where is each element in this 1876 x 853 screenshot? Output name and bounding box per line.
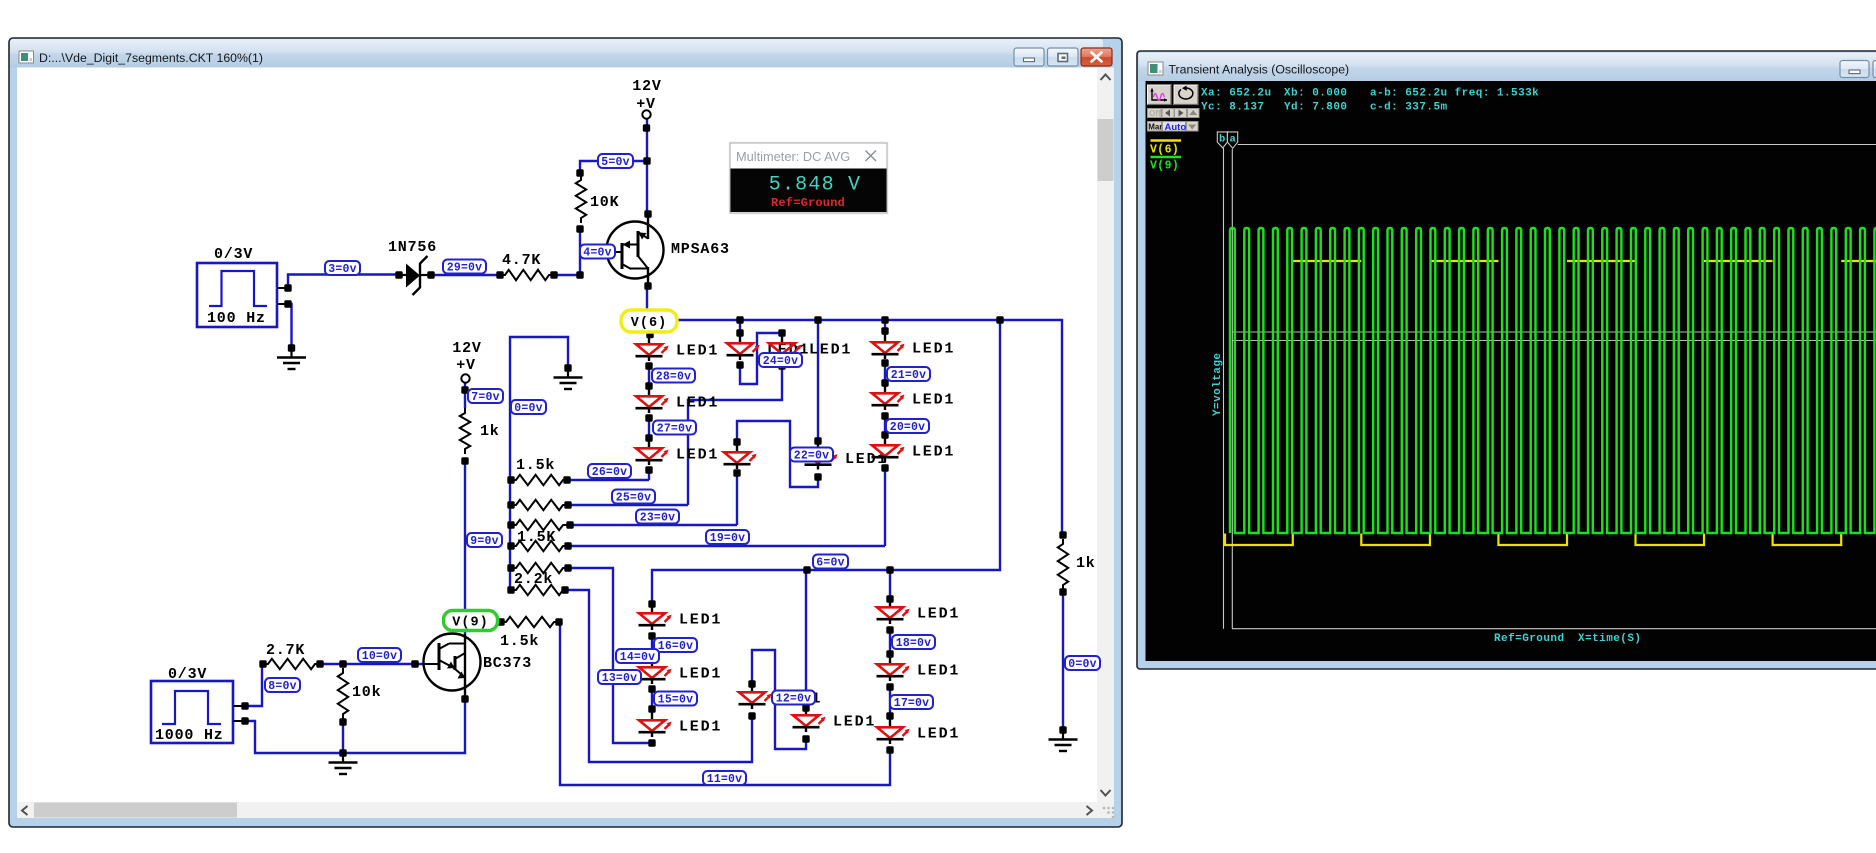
svg-text:LED1: LED1 (679, 719, 722, 736)
V(9) green trace 1kHz (1230, 228, 1876, 533)
node label 24=0v (759, 353, 802, 367)
legend V(9) green (1151, 156, 1182, 159)
plot frame bottom axis (1232, 628, 1876, 630)
restore button (1048, 48, 1079, 66)
wire pulse source 1000Hz top output to 2.7K (245, 664, 262, 706)
node label 12=0v (772, 691, 815, 705)
svg-text:LED1: LED1 (917, 726, 960, 743)
LED I (node12 pair right) (805, 705, 807, 714)
wire LED D bottom loop to LED C top (737, 421, 818, 487)
node label 3=0v (325, 261, 360, 275)
svg-text:22=0v: 22=0v (794, 450, 830, 463)
svg-text:13=0v: 13=0v (602, 672, 638, 685)
svg-text:29=0v: 29=0v (447, 262, 483, 275)
V(6) yellow trace 100Hz low brackets (1225, 534, 1293, 546)
scope left arrow button (1162, 109, 1174, 118)
svg-text:11=0v: 11=0v (707, 773, 743, 786)
svg-text:LED1: LED1 (809, 342, 852, 359)
svg-text:21=0v: 21=0v (891, 369, 927, 382)
node 4 junction (576, 271, 583, 278)
svg-text:Xa: 652.2u: Xa: 652.2u (1201, 88, 1272, 100)
LED A2 (648, 386, 650, 395)
node label 26=0v (588, 464, 631, 478)
wire node 6 bus loop (652, 320, 1000, 604)
wire base stub into MPSA63 (580, 251, 612, 253)
resize grip (1103, 807, 1105, 809)
LED A1 (node V6 chain) (648, 334, 650, 343)
oscilloscope title bar (1139, 53, 1876, 82)
resistor bank row3 node23 (511, 520, 568, 530)
svg-text:0/3V: 0/3V (214, 246, 253, 263)
vertical scrollbar down arrow (1101, 790, 1111, 796)
vertical scrollbar track (1097, 68, 1114, 819)
node label 23=0v (636, 510, 679, 524)
node V(9) highlighted probe label (444, 611, 498, 631)
resistor bank row6 node13 (511, 585, 568, 595)
svg-text:18=0v: 18=0v (896, 637, 932, 650)
svg-text:16=0v: 16=0v (658, 640, 694, 653)
horizontal scrollbar track (17, 802, 1097, 818)
scope down arrow button (1187, 122, 1199, 132)
svg-text:0=0v: 0=0v (514, 402, 542, 415)
horizontal scrollbar thumb (34, 803, 237, 818)
LED G2 (651, 657, 653, 666)
node 5 junction on 12V rail (643, 157, 650, 164)
svg-text:Yd: 7.800: Yd: 7.800 (1284, 102, 1347, 114)
svg-text:23=0v: 23=0v (640, 512, 676, 525)
svg-text:10=0v: 10=0v (362, 650, 398, 663)
node label 9=0v (467, 533, 502, 547)
scope Off button (1148, 109, 1162, 118)
svg-text:1.5k: 1.5k (500, 633, 539, 650)
node label 22=0v (790, 448, 833, 462)
LED D (node22) (814, 316, 821, 323)
svg-text:LED1: LED1 (676, 395, 719, 412)
svg-text:28=0v: 28=0v (656, 371, 692, 384)
svg-text:0=0v: 0=0v (1068, 658, 1096, 671)
schematic editor window frame (9, 38, 1122, 827)
svg-text:9=0v: 9=0v (470, 535, 498, 548)
schematic window title bar (10, 39, 1103, 68)
wire pulse source 100Hz top output to zener (288, 275, 399, 289)
svg-text:Transient Analysis (Oscillosco: Transient Analysis (Oscilloscope) (1169, 63, 1350, 77)
svg-text:LED1: LED1 (912, 341, 955, 358)
cursor c horizontal line (1232, 331, 1876, 333)
svg-text:BC373: BC373 (483, 655, 532, 672)
wire zener to resistor R 4.7K (431, 274, 500, 276)
LED B2 (781, 333, 783, 342)
svg-text:20=0v: 20=0v (890, 421, 926, 434)
scope up arrow button (1188, 109, 1200, 118)
wire pulse source 100Hz bottom output to ground (288, 304, 292, 348)
svg-text:Man: Man (1148, 122, 1164, 131)
node label 28=0v (652, 369, 695, 383)
ground rail junction (339, 749, 346, 756)
wire LED E2 to E3 segment node 20 (884, 416, 886, 435)
cursor a vertical line / left axis (1231, 149, 1233, 629)
schematic client area (17, 68, 1097, 803)
cursor b vertical line (1223, 148, 1225, 629)
wire right 1k resistor to ground (1062, 592, 1064, 730)
horizontal scrollbar left arrow (22, 806, 28, 815)
wire LED G2-G3 segment node 15 (651, 689, 653, 709)
close button (1081, 48, 1112, 66)
wire node 26 horizontal (567, 479, 649, 481)
svg-text:12V: 12V (632, 78, 661, 95)
svg-text:LED1: LED1 (833, 714, 876, 731)
wire LED column A drop from V6 bus (739, 320, 741, 333)
node label 13=0v (598, 670, 641, 684)
svg-text:LED1: LED1 (912, 392, 955, 409)
wire V(9) to 1.5k resistor (465, 621, 501, 623)
node label 21=0v (887, 367, 930, 381)
node label 18=0v (892, 635, 935, 649)
svg-text:Yc: 8.137: Yc: 8.137 (1201, 102, 1264, 114)
node label 7=0v (468, 389, 503, 403)
wire 2.2k first to LED G3 bottom node 14 (568, 568, 652, 743)
svg-text:19=0v: 19=0v (710, 532, 746, 545)
svg-text:6=0v: 6=0v (816, 557, 844, 570)
wire +V 12V supply down to MPSA63 emitter (646, 119, 648, 214)
LED G3 (651, 710, 653, 719)
svg-text:4=0v: 4=0v (583, 247, 611, 260)
transistor Q1 MPSA63 PNP darlington (607, 222, 664, 279)
svg-text:a: a (1230, 134, 1237, 146)
oscilloscope partial second button (1873, 61, 1876, 78)
wire MPSA63 collector down to node V(6) (646, 286, 648, 309)
multimeter display (731, 169, 887, 213)
node label 8=0v (265, 678, 300, 692)
svg-text:a-b: 652.2u freq: 1.533k: a-b: 652.2u freq: 1.533k (1370, 88, 1539, 100)
node label 27=0v (653, 421, 696, 435)
wire V(6) bus horizontal (678, 320, 1062, 535)
ground right column (1059, 726, 1066, 733)
svg-text:MPSA63: MPSA63 (671, 241, 730, 258)
svg-text:27=0v: 27=0v (657, 423, 693, 436)
scope toolbar waveform button (1148, 85, 1172, 105)
schematic window document icon (19, 51, 34, 63)
wire LED column D drop from V6 bus (817, 320, 819, 441)
wire LED G1-G2 segment node 16 (651, 636, 653, 655)
wire LED B2 bottom to node 25 riser (688, 366, 782, 505)
svg-text:LED1: LED1 (912, 444, 955, 461)
svg-text:2.7K: 2.7K (266, 642, 305, 659)
wire 1.5k V9 right end to node 11 rail (559, 622, 890, 785)
svg-text:Ref=Ground: Ref=Ground (1494, 633, 1565, 645)
svg-text:10k: 10k (352, 684, 381, 701)
LED H (node12 pair left) (751, 682, 753, 691)
svg-text:12=0v: 12=0v (776, 693, 812, 706)
LED E2 (884, 383, 886, 392)
svg-text:LED1: LED1 (679, 666, 722, 683)
svg-text:V(6): V(6) (631, 316, 667, 331)
svg-text:D:...\Vde_Digit_7segments.CKT: D:...\Vde_Digit_7segments.CKT 160%(1) (39, 51, 263, 65)
node label 16=0v (654, 638, 697, 652)
LED C (736, 442, 738, 451)
wire 12V left supply down through 1k to V(9) (464, 383, 466, 408)
node label 0=0v right (1065, 656, 1100, 670)
vertical scrollbar up arrow (1101, 75, 1111, 81)
svg-text:3=0v: 3=0v (328, 263, 356, 276)
svg-text:1k: 1k (480, 423, 500, 440)
wire LED H top to LED I bottom loop (752, 650, 806, 749)
svg-text:17=0v: 17=0v (894, 697, 930, 710)
LED G1 (651, 603, 653, 612)
oscilloscope window frame (1137, 51, 1876, 669)
node label 17=0v (890, 695, 933, 709)
svg-text:0/3V: 0/3V (168, 666, 207, 683)
svg-text:5.848 V: 5.848 V (769, 174, 861, 197)
V(6) yellow trace 100Hz high segments (1293, 260, 1362, 262)
LED J1 (886, 566, 893, 573)
oscilloscope minimize button (1840, 61, 1869, 78)
node label 5=0v (598, 154, 633, 168)
svg-text:7=0v: 7=0v (471, 391, 499, 404)
svg-text:5=0v: 5=0v (601, 156, 629, 169)
svg-text:Xb: 0.000: Xb: 0.000 (1284, 88, 1347, 100)
wire LED E1 to E2 segment node 21 (884, 363, 886, 383)
wire node 23 horizontal (570, 524, 737, 526)
wire BC373 base (320, 663, 424, 665)
LED A3 (648, 438, 650, 447)
LED E1 (881, 316, 888, 323)
node label 20=0v (886, 419, 929, 433)
node label 19=0v (706, 530, 749, 544)
wire LED A1 bottom to LED B2 top (740, 333, 782, 384)
wire 2.2k second to LED H bottom node 13 (565, 590, 752, 762)
svg-text:LED1: LED1 (917, 606, 960, 623)
svg-text:LED1: LED1 (676, 343, 719, 360)
oscilloscope client area (1146, 81, 1876, 661)
svg-text:LED1: LED1 (917, 663, 960, 680)
minimize button (1014, 48, 1044, 66)
wire LED I top to node 6 bus (805, 570, 807, 708)
svg-text:b: b (1219, 134, 1226, 146)
scope right arrow button (1175, 109, 1187, 118)
svg-text:1k: 1k (1076, 555, 1096, 572)
svg-text:V(9): V(9) (1150, 160, 1179, 173)
node 6 bus junctions (803, 566, 810, 573)
node V(6) highlighted probe label (621, 310, 677, 332)
svg-text:Auto: Auto (1165, 122, 1187, 133)
svg-text:Ref=Ground: Ref=Ground (771, 196, 845, 210)
wire node6 bus to LED J column top (889, 570, 891, 599)
scope Man button (1148, 122, 1162, 132)
pulse source V1 0/3V 100 Hz (197, 263, 277, 327)
scope toolbar replay button (1174, 85, 1198, 105)
node label 25=0v (612, 490, 655, 504)
legend V(6) yellow (1151, 139, 1182, 142)
svg-text:15=0v: 15=0v (658, 694, 694, 707)
wire LED J2-J3 segment node 17 (889, 687, 891, 716)
wire LED A2-A3 segment node 27 (648, 418, 650, 438)
node label 0=0v (511, 400, 546, 414)
svg-text:24=0v: 24=0v (763, 355, 799, 368)
transistor Q2 BC373 NPN darlington (424, 634, 481, 691)
wire node 19 horizontal (568, 545, 885, 547)
svg-text:Off: Off (1149, 109, 1161, 118)
svg-text:LED1: LED1 (676, 447, 719, 464)
svg-text:26=0v: 26=0v (592, 466, 628, 479)
wire LED column E drop from V6 bus (884, 320, 886, 331)
LED B1 (736, 316, 743, 323)
wire BC373 emitter to ground rail (245, 699, 465, 753)
ground top middle node 0 (564, 364, 571, 371)
svg-text:8=0v: 8=0v (268, 680, 296, 693)
svg-text:c-d: 337.5m: c-d: 337.5m (1370, 102, 1448, 114)
wire LED A1-A2 segment node 28 (648, 366, 650, 386)
wire node4 vertical to 10K bottom (579, 229, 581, 275)
wire LED C bottom to node 23 (736, 473, 738, 525)
resistor bank row2 node25 (511, 500, 568, 510)
cursor d horizontal line (1232, 340, 1876, 342)
horizontal scrollbar right arrow (1087, 806, 1093, 815)
node label 14=0v (616, 649, 659, 663)
wire LED A3 bottom jog (648, 470, 650, 480)
cursor flag b (1217, 132, 1227, 148)
wire 10k bottom to ground rail (342, 722, 344, 753)
LED E3 (884, 435, 886, 444)
cursor flag a (1227, 132, 1237, 148)
oscilloscope icon (1148, 62, 1163, 75)
plot frame top (1238, 144, 1876, 146)
node label 29=0v (443, 260, 486, 274)
node label 11=0v (703, 771, 746, 785)
node label 4=0v (580, 245, 615, 259)
svg-text:100 Hz: 100 Hz (207, 310, 266, 327)
wire LED J1-J2 segment node 18 (889, 630, 891, 654)
svg-text:1000 Hz: 1000 Hz (155, 727, 224, 744)
wire node 0 left vertical to resistor bank (510, 337, 568, 590)
multimeter popup window (729, 142, 889, 215)
LED J3 (889, 717, 891, 726)
node label 15=0v (654, 692, 697, 706)
pulse source V2 0/3V 1000 Hz (151, 681, 233, 743)
wire V(9) collector link behind label (464, 610, 466, 634)
node label 10=0v (358, 648, 401, 662)
svg-text:1N756: 1N756 (388, 239, 437, 256)
svg-text:12V: 12V (452, 340, 481, 357)
LED J2 (889, 654, 891, 663)
svg-text:4.7K: 4.7K (502, 252, 541, 269)
wire 4.7K to base node 4 (554, 274, 580, 276)
svg-text:14=0v: 14=0v (620, 651, 656, 664)
multimeter close X (866, 151, 877, 162)
svg-text:1.5k: 1.5k (516, 457, 555, 474)
svg-text:LED1: LED1 (679, 612, 722, 629)
wire 10K top to 12V rail node 5 (580, 161, 647, 173)
svg-text:Y=voltage: Y=voltage (1212, 353, 1224, 416)
svg-text:10K: 10K (590, 194, 619, 211)
wire LED E3 bottom to node 19 (884, 468, 886, 546)
svg-text:V(6): V(6) (1150, 144, 1179, 157)
vertical scrollbar thumb (1098, 119, 1114, 181)
wire node 25 horizontal (568, 504, 688, 506)
svg-text:25=0v: 25=0v (616, 492, 652, 505)
svg-text:Multimeter: DC AVG: Multimeter: DC AVG (736, 149, 850, 164)
svg-text:X=time(S): X=time(S) (1578, 633, 1641, 645)
svg-text:V(9): V(9) (452, 616, 488, 631)
svg-text:+V: +V (456, 357, 476, 374)
ground for 100Hz source (288, 344, 295, 351)
node label 6=0v (813, 555, 848, 569)
scope Auto button (1163, 122, 1186, 132)
